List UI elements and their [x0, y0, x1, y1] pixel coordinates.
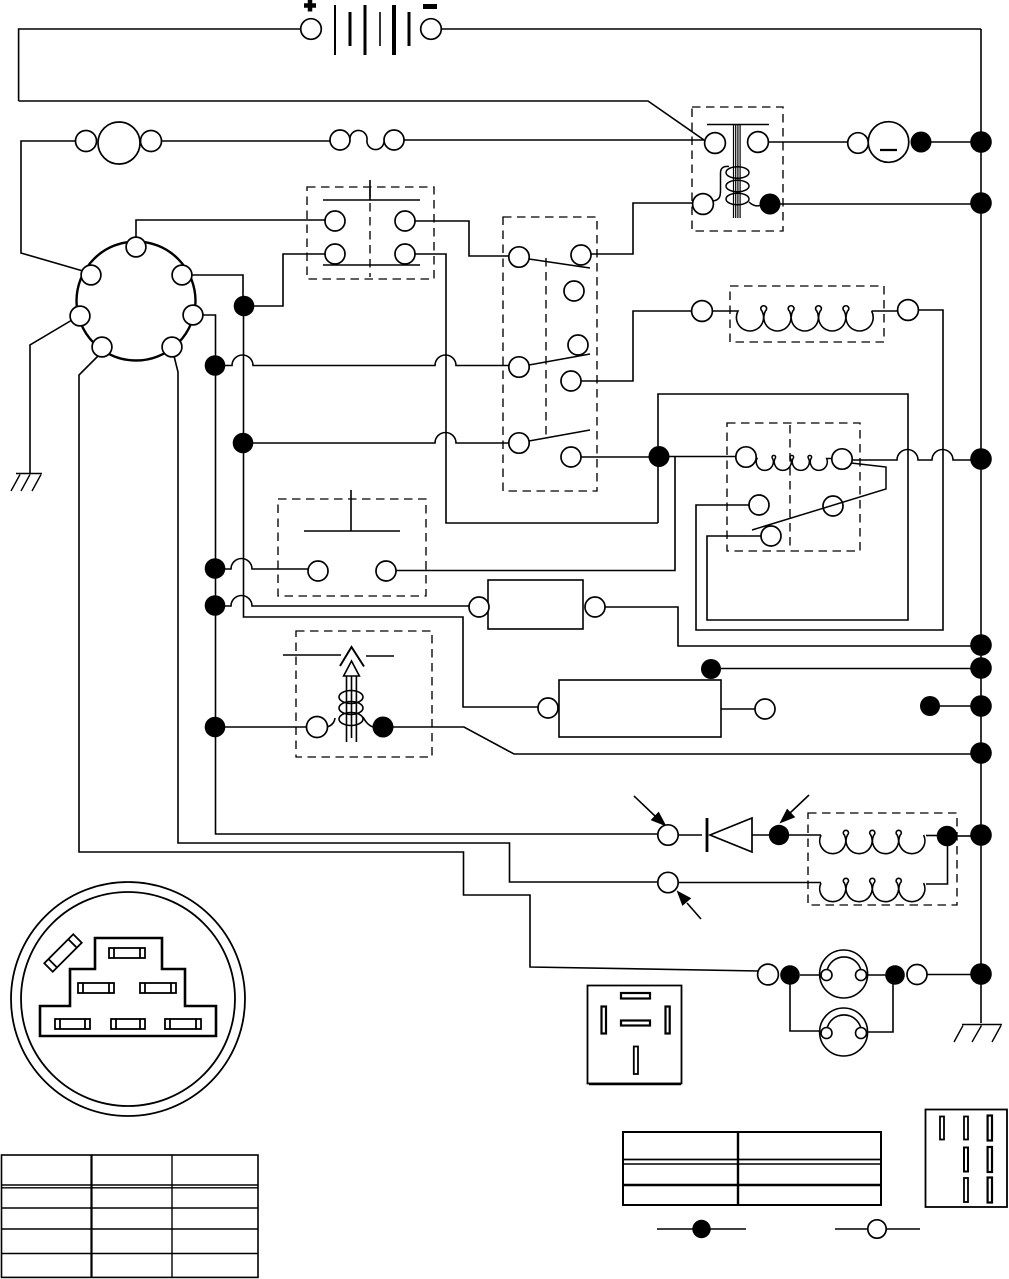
wire connector upper-right pin to junction: [192, 275, 243, 297]
battery minus symbol: [423, 4, 437, 9]
bus dot headlamp row: [970, 963, 992, 985]
lamp row terminals: [758, 964, 927, 985]
connector pins: [70, 237, 203, 357]
starter solenoid terminals: [693, 132, 769, 215]
wire diode row feed (drawn with column above): [678, 834, 702, 836]
battery terminals: [301, 19, 442, 40]
headlights coil dashed box: [808, 813, 957, 905]
wire junction to brake switch lower-left: [253, 254, 326, 306]
bus dot relay row: [970, 448, 992, 470]
wire connector right pin down column: [203, 315, 658, 834]
ignition coil spark gap and winding: [283, 647, 394, 742]
ground symbol bottom right: [954, 1025, 1002, 1043]
wire connector top pin to brake switch: [136, 220, 326, 238]
engine module box: [559, 680, 721, 737]
legend open connection: [835, 1220, 920, 1238]
wire ground bus right side: [980, 29, 982, 1023]
headlamp 1: [820, 950, 868, 998]
interlock relay winding: [746, 455, 842, 470]
ammeter: [76, 122, 162, 164]
wire seat switch to relay branch: [396, 456, 675, 571]
wire ignition coil feed: [225, 726, 307, 728]
harness connector box: [926, 1110, 1008, 1208]
wire lamp1 left: [800, 974, 821, 976]
starter motor minus: [879, 149, 897, 151]
lamp coil row2 terminal: [658, 872, 678, 892]
connector slot bottom-mid: [111, 1019, 145, 1029]
brake switch plunger: [323, 180, 420, 265]
diode module box: [488, 580, 583, 629]
wire diode module feed with crossover hop: [225, 596, 470, 607]
legend solid connection: [657, 1220, 746, 1238]
wire junction column x243 down to engine module: [244, 306, 540, 707]
wire lights coils corner to bus: [956, 835, 971, 837]
wire dot to lights coil row1: [789, 834, 821, 836]
battery: [335, 5, 409, 55]
connector slot top: [109, 948, 145, 958]
wire diode module to bus: [605, 607, 971, 646]
headlights coil row1 winding: [820, 830, 925, 853]
key switch dashed box: [503, 217, 597, 491]
bus dot starter row: [970, 131, 992, 153]
wire lights coil row1 to corner dot: [926, 835, 938, 837]
wire brake switch lower-right down column x446: [415, 254, 658, 523]
junction headlamp left node: [780, 965, 800, 985]
brake switch dashed box: [307, 187, 434, 279]
key switch pole blades: [529, 259, 590, 441]
starter motor: [848, 122, 909, 163]
junction solenoid coil ground: [760, 194, 781, 215]
wire lamp coil row2 segment: [678, 882, 821, 884]
wiring table left: [2, 1155, 259, 1277]
connector slot bottom-left: [55, 1019, 90, 1029]
wire ammeter to fuse: [162, 140, 330, 142]
wire relay coil D contact loop to fuel solenoid right: [696, 310, 943, 630]
wire solenoid coil to bus: [780, 203, 971, 205]
bus dot diode module row: [970, 634, 992, 656]
ignition coil dashed box: [296, 631, 432, 757]
wire key feed loop to relay junction: [658, 394, 908, 620]
key switch terminals: [509, 245, 591, 467]
bus dot engine module row: [970, 657, 992, 679]
battery plus symbol: [304, 0, 316, 12]
junction C accessory feed: [233, 433, 254, 454]
diode symbol: [707, 818, 752, 852]
wire battery plus to left edge and down: [19, 29, 301, 101]
arrow at diode circle: [634, 796, 666, 826]
relay blade armature: [752, 463, 886, 530]
wire lamp1 right: [867, 974, 886, 976]
brake switch terminals: [325, 211, 415, 264]
interlock relay terminals: [736, 447, 852, 546]
arrow at lamp coil circle: [678, 892, 702, 920]
wire connector lower-right pin down column to lamp coil: [174, 356, 659, 882]
wire lamp row to right circle and bus: [927, 974, 971, 976]
wiring table right: [623, 1132, 881, 1205]
connector slot mid-right: [140, 983, 176, 993]
junction B ignition feed: [205, 355, 226, 376]
junction lights coil common: [937, 826, 958, 847]
junction engine module top terminal: [701, 659, 721, 679]
junction ignition coil kill terminal: [373, 717, 394, 738]
key switch rear connector view: [11, 882, 245, 1116]
wire engine module top terminal to bus: [721, 668, 971, 670]
junction diode output node: [769, 825, 789, 845]
fuel solenoid terminals: [692, 300, 919, 322]
junction D seat switch feed: [205, 558, 226, 579]
wire ammeter left lead down to connector: [21, 141, 83, 271]
interlock relay dashed box: [727, 423, 860, 551]
seat switch plunger: [304, 490, 400, 531]
junction starter motor ground: [911, 132, 932, 153]
junction F ignition coil feed: [205, 717, 226, 738]
wire connector lower-left pin down column to lights feed: [79, 355, 759, 971]
wire lights coil row2 right riser: [926, 845, 948, 884]
fuel solenoid coil dashed box: [730, 286, 884, 342]
junction stub node: [920, 696, 940, 716]
wire solenoid contact to starter: [768, 141, 847, 143]
ignition coil primary terminal: [307, 717, 328, 738]
bus dot kill wire row: [970, 742, 992, 764]
wire lamp2 parallel loop right: [867, 984, 893, 1032]
diode row terminal: [658, 825, 678, 845]
wire relay coil to bus with crossover hops: [852, 450, 971, 461]
fuse: [330, 130, 404, 150]
wire fuse to solenoid contact: [404, 139, 704, 141]
seat switch dashed box: [278, 499, 426, 596]
wire connector left pin to ground: [30, 320, 72, 473]
wire starter to bus: [931, 141, 971, 143]
fuel solenoid winding: [713, 306, 898, 331]
engine module terminals: [538, 698, 775, 719]
connector keyway slot: [44, 934, 81, 971]
arrow at diode dot: [781, 795, 810, 823]
wire brake switch upper-right to key switch pole1: [415, 221, 509, 256]
wire engine module right lead: [721, 708, 755, 710]
wire key pole3 out to relay junction: [581, 456, 650, 458]
starter solenoid dashed box: [692, 107, 783, 231]
wire lamp2 parallel loop left: [790, 984, 820, 1031]
wire battery minus to ground bus: [441, 28, 981, 30]
wire stub dot to bus: [930, 705, 971, 707]
connector slot bottom-right: [165, 1019, 201, 1029]
wire ignition coil kill lead to bus: [393, 727, 971, 754]
headlamp 2: [820, 1008, 868, 1056]
junction relay coil node: [649, 446, 670, 467]
bus dot lights row: [970, 824, 992, 846]
ground symbol left: [11, 474, 42, 492]
wire diode to dot: [752, 834, 769, 836]
wire key pole1 to solenoid coil: [591, 203, 693, 254]
connector slot mid-left: [78, 983, 114, 993]
headlights coil row2 winding: [820, 878, 925, 901]
junction E diode module feed: [205, 595, 226, 616]
ignition switch connector ring: [77, 242, 196, 361]
wire seat switch feed with crossover hop: [225, 559, 309, 570]
junction headlamp right node: [885, 965, 905, 985]
wire ignition feed with crossover hops: [225, 355, 510, 366]
wire upper feed to starter solenoid: [19, 101, 704, 140]
diode module terminals: [469, 597, 605, 617]
junction A connector branch: [234, 296, 255, 317]
bus dot stub row: [970, 695, 992, 717]
wire relay junction to relay coil: [668, 456, 737, 458]
wire key pole2 out to fuel solenoid coil: [581, 311, 692, 381]
starter solenoid plunger and coil: [707, 125, 769, 219]
seat switch terminals: [308, 561, 396, 581]
bus dot solenoid coil row: [970, 192, 992, 214]
wire accessory feed with crossover hop: [253, 433, 510, 444]
relay socket box: [588, 986, 682, 1085]
